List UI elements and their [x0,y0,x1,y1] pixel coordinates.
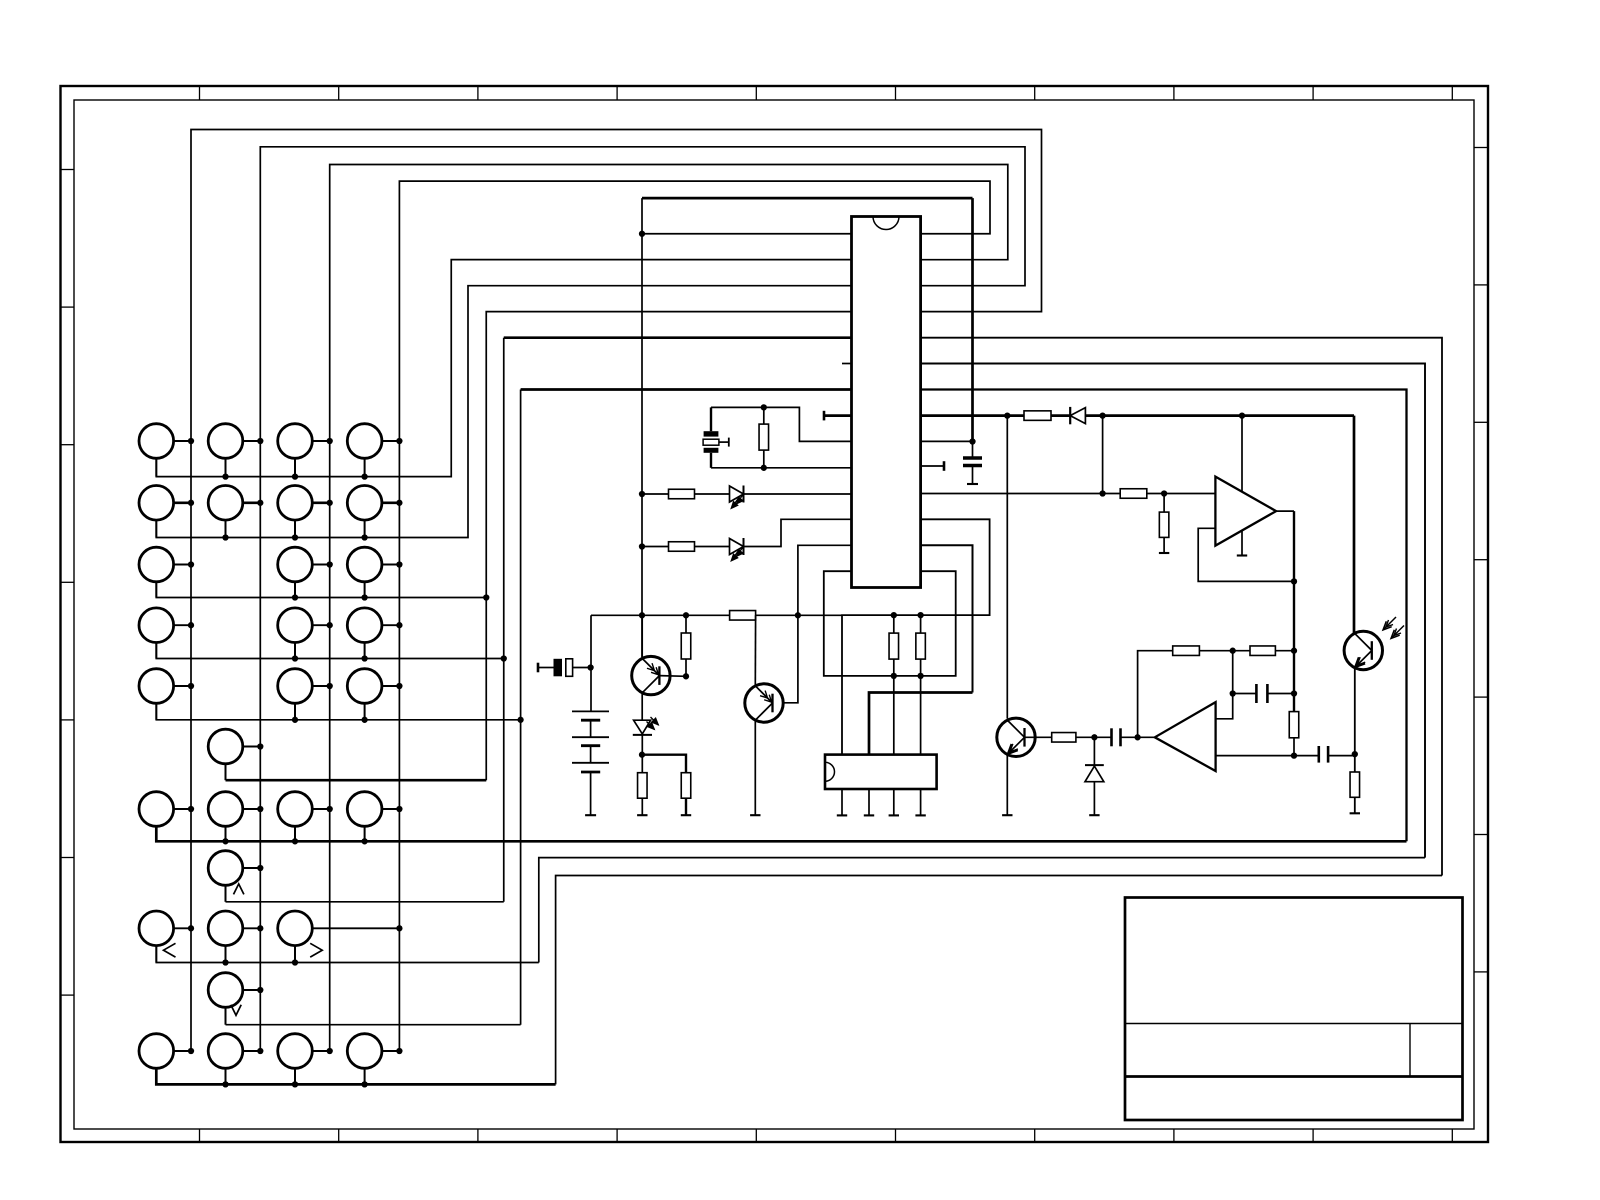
resistor R7 [893,615,895,633]
LED D1 [730,486,744,502]
wire: column 2 bus to IC pin (loop) [260,147,1025,1051]
transistor Q1 [632,656,670,694]
button S12 (row 4, col 1) [139,608,191,659]
resistor R5 [681,773,691,799]
resistor R6 [641,755,643,773]
button S8 (row 2, col 4) [347,486,399,538]
resistor R11 [1250,646,1275,656]
wire: branch to U3 input chain [1102,416,1104,494]
battery BT1 [572,710,609,712]
LED D2 [730,539,744,555]
wire: to U4 noninverting input [1216,694,1233,719]
op-amp U4 [1155,702,1216,771]
node: IC pin 20 test point [921,465,944,467]
button S20 (row 7, col 2) [208,792,260,842]
label: right key [310,943,322,957]
wire: IC pin 5 rail (thick) [504,336,852,339]
wire: U4 inverting input [1293,738,1295,756]
wire: keypad row 1 to IC pin 2 [156,260,851,477]
wire: U4 output to C3 [1121,736,1155,738]
wire: oscillator base rail [591,614,730,616]
button S7 (row 2, col 3) [278,486,330,538]
junction dots: VDD line [1004,412,1010,418]
diode D5 [1051,414,1070,417]
wire: IC right pin 8 to bus [921,440,973,442]
crystal X1 [710,407,712,431]
button S14 (row 4, col 4) [347,608,399,659]
wire: D3 cathode to divider [641,735,643,755]
junction dots: comparator input [1099,490,1105,496]
transistor Q2 [745,684,783,722]
resistor R8 [920,615,922,633]
button S6 (row 2, col 2) [208,486,260,538]
wire: IC pin 13 to Q2 base [772,545,852,703]
wire: row 9 line [156,945,539,962]
wire: column 1 bus to IC pin (loop) [191,130,1042,1052]
wire: main vertical bus x=972.5 (thick) [971,198,974,441]
wire: VDD line (thick, to IR stage) [1085,414,1354,417]
diode D4 [1093,737,1095,765]
resistor R10 [1173,646,1200,656]
button S9 (row 3, col 1) [139,547,191,597]
wire: IC pin 7 rail (thick) [521,388,852,391]
wire: loop to IC2 pin (thick) [869,693,973,755]
resistor R1 [730,611,756,621]
junction dots: oscillator rail [639,231,645,237]
junction dots: crystal net [761,404,767,410]
wire: column 3 bus to IC pin (loop) [330,165,1008,1052]
button S22 (row 7, col 4) [347,792,399,842]
button S27 (row 10, col 2) [208,973,260,1025]
wire: IC pin 6 stub [842,363,852,365]
label: down-arrow key [231,1005,241,1016]
wire: row 6 line (thick) [226,779,487,782]
wire: IC pin 1 to top bus (thick) [642,233,852,235]
button S1 (row 1, col 1) [139,424,191,477]
button S17 (row 5, col 4) [347,669,399,720]
IC U2 notch [825,762,835,781]
wire: Q3 collector feed [1006,416,1008,719]
button S28 (row 11, col 1) [139,1034,191,1085]
junction dots: keypad matrix [188,438,194,444]
LED D3 [634,720,651,734]
resistor R14 [1163,494,1165,513]
wire: battery feed [590,615,592,711]
wire: AGC chain [1138,651,1173,738]
wire: bus row3/row6 to IC pin 4 [486,312,851,781]
wire: rail B riser to bus node [921,364,1425,858]
wire: IC right pin 16 loop [842,519,990,754]
node: IC pin 8 test point [824,414,852,417]
button S5 (row 2, col 1) [139,486,191,538]
button S30 (row 11, col 3) [278,1034,330,1085]
IC U2 (driver) body [825,755,937,789]
wire: keypad row 2 to IC pin 3 [156,286,851,538]
wire: IC pin 18 to comparator input [921,493,1103,495]
wire: U3 output [1276,510,1294,512]
IC U1 notch [873,217,899,230]
wire: rail A riser to IC right pin 23 [921,390,1407,842]
button S16 (row 5, col 3) [278,669,330,720]
op-amp? no: IC U1 body [852,217,921,588]
wire: crystal bottom net [711,467,852,469]
label: left key [164,943,176,957]
capacitor C4 [1232,651,1234,694]
capacitor C5 [1294,755,1319,757]
resistor R2 (Q1 base) [685,615,687,633]
wire: LED D2 to IC pin 12 [744,519,852,546]
wire: vertical bus x=642 [641,198,643,657]
wire: IC pin 14 U-loop to pin 15 [824,571,956,676]
wire: down-key row line [226,1024,521,1026]
capacitor C2 [972,442,974,459]
wire: VDD drop to phototransistor (thick) [1353,416,1356,633]
button S2 (row 1, col 2) [208,424,260,477]
label: up-arrow key [234,884,244,895]
button S31 (row 11, col 4) [347,1034,399,1085]
button S10 (row 3, col 3) [278,547,330,597]
resistor R15 [1024,411,1051,421]
wire: VDD line from IC pin 21 (thick) [921,414,1024,417]
wire: IC right pin 13 down to driver IC2 [921,545,973,692]
wire: bus row4/up-key to IC pin 5 [503,338,505,902]
wire: R8 to IC2 [920,676,922,755]
button S15 (row 5, col 1) [139,669,191,720]
button S24 (row 9, col 1) [139,911,191,963]
button S25 (row 9, col 2) [208,911,260,963]
wire: top rail wire5 (thick) [642,197,973,200]
resistor R12 [1289,712,1299,738]
wire: R7 to IC2 [893,676,895,755]
wire: up-key row line [226,901,504,903]
wire: keypad row 5 line [156,703,520,720]
transistor Q3 [997,718,1035,756]
wire: column 4 bus to IC pin (loop) [399,181,990,1051]
junction dot: emitter node [1352,751,1358,757]
node: crystal third terminal [719,441,729,443]
IC U2 bottom pins [841,789,843,815]
wire: row 11 riser and rail C [556,876,1442,1085]
resistor R4 [642,546,669,548]
wire: rail C riser to IC right pin 25 [921,338,1442,876]
wire: row 9 riser and rail B [539,858,1425,963]
capacitor C1 (electrolytic) [537,663,540,673]
resistor R3 [642,493,669,495]
junction dots: Q3 base node [1091,734,1097,740]
wire: U3 power pin [1241,416,1243,556]
button S26 (row 9, col 3) [278,911,400,963]
button S11 (row 3, col 4) [347,547,399,597]
resistor R17 (crystal load) [763,407,765,424]
wire: keypad row 3 line [156,582,486,598]
button S3 (row 1, col 3) [278,424,330,477]
junction dots: divider rails [891,612,897,618]
op-amp U3 [1215,477,1276,546]
wire: divider branch [642,755,686,773]
wire: crystal top net [711,407,852,441]
button S4 (row 1, col 4) [347,424,399,477]
button S23 (row 8, col 2) [208,851,260,902]
button S29 (row 11, col 2) [208,1034,260,1085]
wire: LED D1 to IC pin 11 [744,493,852,495]
wire: Q3 base stub [1025,736,1052,738]
capacitor C3 [1110,728,1113,746]
resistor R9 (Q3 base) [1076,736,1095,738]
phototransistor Q4 [1344,631,1382,669]
wire: row 11 line (thick) [156,1068,555,1084]
button S21 (row 7, col 3) [278,792,330,842]
resistor R16 [1350,772,1360,797]
button S19 (row 7, col 1) [139,792,191,842]
wire: U3 output bus (thick) [1293,511,1295,711]
button S13 (row 4, col 3) [278,608,330,659]
wire: keypad row 4 line [156,642,503,658]
wire: bus row5/down-key to IC pin 7 [520,390,522,1025]
wire: Q1 base [659,675,686,678]
junction dots: U3 output bus [1291,578,1297,584]
wire: U3 feedback [1198,528,1294,581]
resistor R13 [1120,489,1147,499]
junction dots: main bus [969,438,975,444]
button S18 (row 6, col 2) [208,729,260,780]
wire: row 7 / bottom rail A (thick) [156,826,1406,841]
